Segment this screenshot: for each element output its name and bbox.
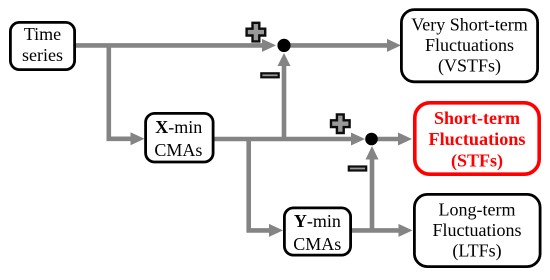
box X-min CMAs <box>146 113 214 162</box>
arrowhead into summing junction 2 <box>351 133 365 146</box>
box Very Short-term Fluctuations (VSTFs) <box>401 10 537 82</box>
wire branch down from X-min output to Y-min CMAs <box>249 139 270 230</box>
svg-text:Time: Time <box>24 24 61 44</box>
svg-text:Fluctuations: Fluctuations <box>425 35 514 55</box>
minus sign at summing junction 2 <box>349 167 366 171</box>
svg-text:CMAs: CMAs <box>154 140 202 160</box>
svg-text:CMAs: CMAs <box>293 234 341 254</box>
svg-text:Short-term: Short-term <box>434 108 520 128</box>
svg-text:(LTFs): (LTFs) <box>452 241 501 262</box>
wire from summing junction 1 to VSTFs box <box>284 43 388 48</box>
wire up from Y-min output into summing junction 2 (minus input) <box>370 159 375 230</box>
box Y-min CMAs <box>284 208 350 255</box>
arrowhead into X-min CMAs box <box>131 132 145 145</box>
minus sign at summing junction 1 <box>261 73 278 77</box>
svg-text:Very Short-term: Very Short-term <box>411 15 527 35</box>
arrowhead into Y-min CMAs box <box>269 224 283 237</box>
box Short-term Fluctuations (STFs) <box>415 103 539 174</box>
plus sign at summing junction 2 <box>331 114 350 133</box>
wire from Y-min CMAs to LTFs box <box>352 228 399 233</box>
svg-text:(VSTFs): (VSTFs) <box>438 55 501 76</box>
svg-text:Long-term: Long-term <box>439 200 516 220</box>
summing junction 1 dot <box>277 39 290 52</box>
svg-text:(STFs): (STFs) <box>451 150 503 171</box>
svg-text:series: series <box>22 45 63 65</box>
svg-text:Fluctuations: Fluctuations <box>429 129 526 149</box>
wire from summing junction 2 to STFs box <box>372 137 400 142</box>
arrowhead into STFs box <box>398 133 412 146</box>
box Long-term Fluctuations (LTFs) <box>414 194 540 266</box>
arrowhead up into summing junction 1 <box>278 53 291 66</box>
wire up from X-min output into summing junction 1 (minus input) <box>282 65 287 139</box>
box Time series <box>10 22 74 69</box>
svg-text:X-min: X-min <box>155 117 202 137</box>
plus sign at summing junction 1 <box>247 23 266 42</box>
arrowhead into LTFs box <box>399 224 413 237</box>
arrowhead up into summing junction 2 <box>366 146 379 160</box>
wire branch down from Time series line to X-min CMAs <box>109 45 131 138</box>
arrowhead into summing junction 1 <box>262 39 276 52</box>
arrowhead into VSTFs box <box>387 39 401 52</box>
svg-text:Fluctuations: Fluctuations <box>433 220 522 240</box>
wire from X-min CMAs to summing junction 2 <box>214 137 352 142</box>
summing junction 2 dot <box>365 133 378 146</box>
wire from Time series to summing junction 1 <box>76 43 263 48</box>
svg-text:Y-min: Y-min <box>294 211 341 231</box>
